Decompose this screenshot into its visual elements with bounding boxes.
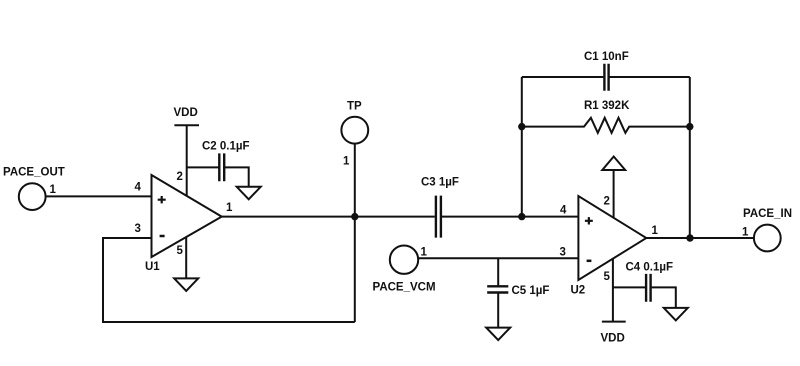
op-amp U2 (571, 196, 647, 297)
wire U2 output to PACE_IN (646, 237, 754, 239)
svg-text:2: 2 (177, 171, 183, 183)
wire feedback left vertical (521, 77, 523, 217)
power VDD top (174, 107, 200, 125)
connector J PACE_OUT (3, 167, 65, 211)
capacitor C2 (202, 141, 250, 182)
capacitor C1 (584, 51, 629, 91)
svg-text:R1 392K: R1 392K (584, 100, 630, 112)
svg-text:U1: U1 (145, 261, 160, 273)
wire C3 to U2 pin 4 (442, 216, 579, 218)
svg-text:1: 1 (50, 184, 57, 196)
svg-text:3: 3 (560, 247, 566, 259)
svg-text:U2: U2 (571, 285, 586, 297)
wire U1 pin 3 feedback left (103, 238, 355, 322)
wire C4 branch (613, 287, 676, 308)
svg-text:C2 0.1µF: C2 0.1µF (202, 141, 250, 153)
svg-text:3: 3 (135, 223, 141, 235)
wire U1 pin 5 down (185, 237, 187, 278)
svg-text:C5 1µF: C5 1µF (512, 285, 550, 297)
svg-text:PACE_VCM: PACE_VCM (373, 282, 436, 294)
wire VDD to U1 pin 2 (186, 125, 188, 196)
svg-text:VDD: VDD (601, 333, 625, 345)
svg-text:C3 1µF: C3 1µF (421, 177, 459, 189)
node junction R1 right (686, 123, 693, 130)
svg-text:5: 5 (604, 271, 611, 283)
svg-text:PACE_OUT: PACE_OUT (3, 167, 65, 179)
capacitor C4 (626, 262, 674, 302)
ground U1 pin 5 (174, 278, 198, 291)
svg-text:TP: TP (347, 101, 362, 113)
svg-text:1: 1 (343, 156, 350, 168)
node junction feedback-left-main (518, 213, 525, 220)
node junction output-feedback (686, 234, 693, 241)
svg-text:5: 5 (177, 245, 184, 257)
wire feedback right vertical (689, 77, 691, 238)
wire PACE_VCM to U2 pin 3 (418, 257, 578, 259)
test point TP (341, 101, 368, 168)
node junction TP-main (351, 213, 358, 220)
wire TP down through main node (354, 144, 356, 322)
svg-text:4: 4 (135, 182, 142, 194)
wire U1 output to C3 (222, 216, 435, 218)
svg-text:1: 1 (652, 225, 659, 237)
capacitor C5 (487, 285, 549, 297)
ground below C5 (486, 328, 510, 341)
power arrow above U2 pin 2 (602, 157, 625, 171)
ground after C2 (237, 187, 261, 200)
capacitor C3 (421, 177, 459, 238)
ground after C4 (664, 308, 688, 321)
svg-text:1: 1 (742, 227, 749, 239)
svg-text:1: 1 (226, 202, 233, 214)
node junction R1 left (518, 123, 525, 130)
svg-text:1: 1 (421, 247, 428, 259)
wire U2 pin 5 down (612, 259, 614, 322)
svg-text:C1 10nF: C1 10nF (584, 51, 629, 63)
resistor R1 (522, 100, 690, 133)
wire C5 branch down (497, 258, 499, 327)
op-amp U1 (145, 175, 222, 273)
wire PACE_OUT to U1 pin 4 (46, 195, 152, 197)
svg-text:PACE_IN: PACE_IN (743, 208, 792, 220)
wire C2 branch (187, 167, 249, 186)
svg-text:C4 0.1µF: C4 0.1µF (626, 262, 674, 274)
connector J PACE_IN (742, 208, 792, 251)
svg-text:VDD: VDD (174, 107, 198, 119)
svg-text:2: 2 (604, 196, 610, 208)
svg-text:4: 4 (560, 205, 567, 217)
power VDD bottom (601, 322, 626, 345)
wire power arrow to U2 pin 2 (613, 170, 615, 218)
wire feedback top with C1 (522, 76, 690, 78)
connector J PACE_VCM (373, 246, 436, 294)
